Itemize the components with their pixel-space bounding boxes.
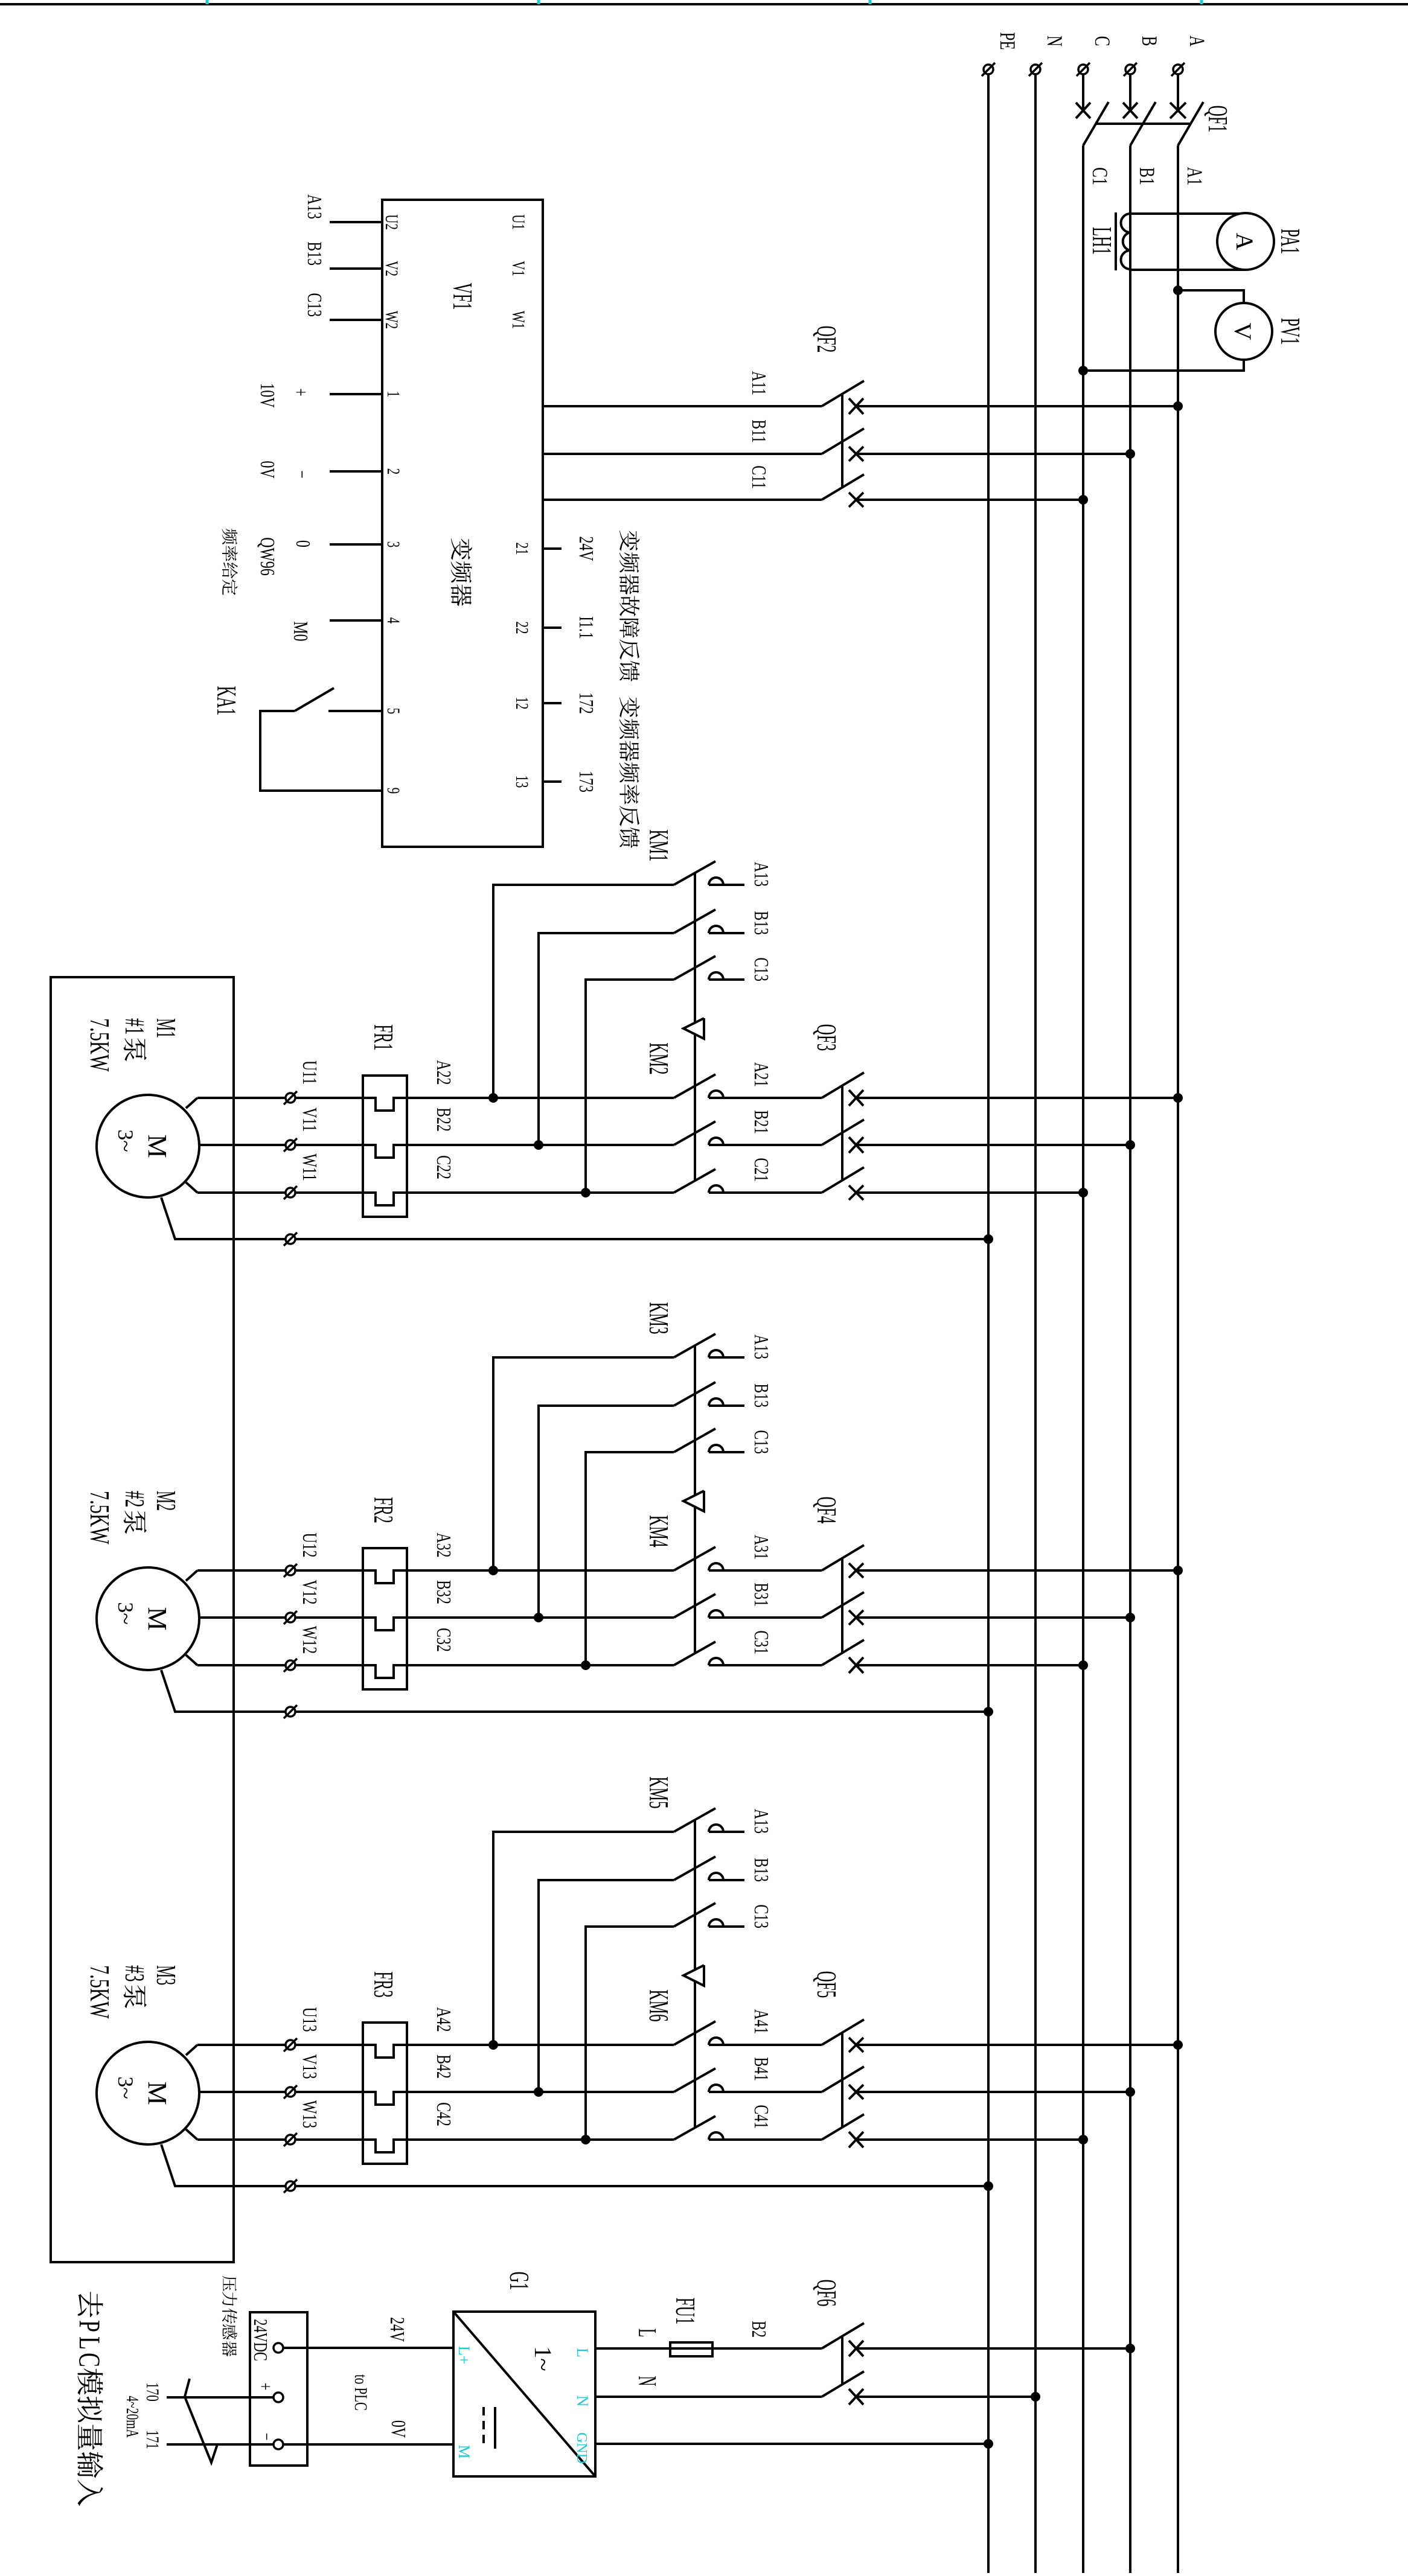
svg-text:W11: W11 — [298, 1153, 321, 1181]
wire bus A1 segment to QF1 — [1177, 75, 1179, 110]
breaker pole contact — [849, 2038, 863, 2052]
pin 2 stub — [330, 470, 382, 473]
svg-text:5: 5 — [383, 708, 404, 714]
svg-text:24V: 24V — [575, 537, 597, 561]
pressure sensor terminal box — [250, 2312, 307, 2466]
wire contactor output — [493, 1357, 674, 1570]
pin 12 stub — [543, 702, 562, 704]
wire to thermal relay — [295, 1145, 674, 1158]
wire B13 stub — [709, 1879, 744, 1881]
wire — [856, 1616, 1130, 1619]
svg-text:C42: C42 — [432, 2102, 455, 2126]
wire to thermal relay — [295, 2092, 674, 2105]
breaker pole contact — [849, 2085, 863, 2099]
wire — [856, 1097, 1178, 1099]
svg-text:A13: A13 — [750, 1809, 772, 1834]
svg-text:VF1: VF1 — [447, 283, 477, 310]
wire — [856, 2044, 1178, 2046]
svg-text:N: N — [633, 2376, 661, 2386]
svg-text:A42: A42 — [432, 2007, 455, 2032]
wire motor lead upper — [199, 1144, 286, 1146]
interlock triangle — [683, 1491, 704, 1511]
junction — [534, 2087, 543, 2097]
svg-text:3~: 3~ — [114, 2076, 138, 2099]
label 变频器频率反馈 — [619, 697, 639, 718]
svg-text:B41: B41 — [750, 2057, 772, 2081]
junction — [581, 1660, 590, 1670]
svg-text:KM5: KM5 — [644, 1776, 673, 1808]
label 频率给定 — [222, 529, 238, 544]
drawing frame edge line — [0, 3, 1408, 5]
connector U13 — [286, 2040, 295, 2050]
svg-text:12: 12 — [512, 697, 533, 710]
contactor pole contact — [709, 1825, 723, 1832]
svg-text:G1: G1 — [504, 2272, 534, 2291]
svg-text:+: + — [255, 2383, 277, 2391]
connector W13 — [286, 2135, 295, 2144]
svg-text:KM4: KM4 — [644, 1515, 673, 1547]
wire to thermal relay — [295, 2140, 674, 2152]
svg-text:171: 171 — [142, 2430, 163, 2449]
PE connector — [286, 1234, 295, 1244]
PE connector — [286, 1707, 295, 1717]
junction — [488, 2040, 498, 2050]
wire GND — [595, 2443, 988, 2445]
svg-text:A31: A31 — [750, 1535, 772, 1560]
svg-text:KA1: KA1 — [211, 686, 241, 716]
svg-text:KM3: KM3 — [644, 1302, 673, 1334]
wire C13 stub — [709, 1925, 744, 1928]
pin 3 stub — [330, 543, 382, 546]
breaker pole contact — [849, 398, 863, 414]
svg-text:13: 13 — [512, 776, 533, 788]
motor lead A — [186, 1570, 197, 1581]
svg-text:C31: C31 — [750, 1630, 772, 1654]
wire bus B1 segment to QF1 — [1129, 75, 1131, 110]
svg-text:M1: M1 — [151, 1018, 182, 1038]
pin 22 stub — [543, 626, 562, 629]
svg-text:4: 4 — [383, 617, 404, 624]
wire contactor output — [539, 1406, 674, 1618]
wire — [856, 1664, 1083, 1666]
wire contactor output — [539, 933, 674, 1145]
wire to thermal relay — [295, 1665, 674, 1678]
svg-text:FR3: FR3 — [368, 1971, 398, 1997]
connector V11 — [286, 1140, 295, 1150]
svg-text:QW96: QW96 — [256, 537, 278, 575]
frame zone tick cyan 3 — [537, 0, 540, 4]
wire — [856, 453, 1130, 455]
svg-text:KM6: KM6 — [644, 1989, 673, 2021]
svg-text:V13: V13 — [298, 2055, 321, 2079]
contactor pole contact — [709, 1658, 723, 1665]
pin 9 loop wire — [260, 711, 382, 791]
svg-text:173: 173 — [575, 771, 597, 792]
junction — [488, 1566, 498, 1575]
motor lead C — [186, 2129, 197, 2140]
contactor pole contact — [709, 972, 723, 980]
svg-text:QF1: QF1 — [1203, 106, 1232, 133]
svg-text:4~20mA: 4~20mA — [123, 2396, 141, 2438]
wire 24V G1 to sensor — [283, 2347, 453, 2349]
G1 DC symbol — [494, 2407, 496, 2449]
svg-text:21: 21 — [512, 543, 533, 555]
svg-text:A13: A13 — [303, 194, 325, 219]
contactor pole contact — [709, 1919, 723, 1927]
frame zone tick cyan 1 — [1200, 0, 1203, 4]
svg-text:U13: U13 — [298, 2007, 321, 2032]
contactor pole contact — [709, 2132, 723, 2140]
svg-text:KM2: KM2 — [644, 1042, 673, 1074]
svg-text:C: C — [73, 2353, 106, 2367]
wire A11 — [543, 405, 822, 407]
pin 13 stub — [543, 780, 562, 783]
svg-text:QF6: QF6 — [811, 2280, 841, 2307]
junction on bus B for QF6 — [1125, 2344, 1135, 2353]
junction on bus N for QF6 — [1031, 2392, 1040, 2402]
svg-text:B11: B11 — [747, 419, 770, 443]
motor lead A — [186, 1098, 197, 1108]
wire contactor output — [586, 1927, 674, 2140]
wire B2 upper — [856, 2347, 1130, 2350]
svg-text:B13: B13 — [303, 241, 325, 266]
wire — [856, 405, 1178, 407]
svg-text:#2: #2 — [119, 1491, 150, 1508]
svg-text:1: 1 — [383, 391, 404, 397]
junction — [534, 1140, 543, 1150]
svg-text:B13: B13 — [750, 911, 772, 935]
pin 21 stub — [543, 547, 562, 550]
junction on bus C for PV1 — [1078, 366, 1088, 375]
breaker tie bar — [841, 394, 843, 488]
wire A41 — [709, 2044, 822, 2046]
contactor pole contact — [709, 1091, 723, 1098]
breaker pole contact — [849, 1137, 863, 1153]
svg-text:U11: U11 — [298, 1060, 321, 1085]
wire C11 — [543, 499, 822, 501]
svg-text:B21: B21 — [750, 1110, 772, 1134]
svg-text:C22: C22 — [432, 1155, 455, 1179]
wire C21 — [709, 1191, 822, 1194]
wire — [856, 1569, 1178, 1572]
svg-text:3~: 3~ — [114, 1129, 138, 1152]
frame zone tick cyan 2 — [869, 0, 872, 4]
contactor pole contact — [709, 2038, 723, 2045]
svg-text:170: 170 — [142, 2382, 163, 2401]
svg-text:L: L — [633, 2329, 661, 2337]
wire to thermal relay — [295, 1618, 674, 1630]
wire contactor output — [586, 980, 674, 1193]
junction — [534, 1613, 543, 1622]
svg-text:3~: 3~ — [114, 1602, 138, 1624]
wire A13 stub — [709, 884, 744, 886]
svg-text:C13: C13 — [750, 957, 772, 981]
svg-text:QF2: QF2 — [811, 326, 841, 353]
wire A13 stub — [330, 221, 382, 223]
motor PE lead — [161, 1670, 286, 1712]
destination arrow — [185, 2379, 217, 2463]
mechanical interlock tie bar — [694, 1981, 696, 2128]
wire to thermal relay — [295, 1570, 674, 1583]
junction on bus B — [1125, 2087, 1135, 2097]
thermal relay FR1 box — [363, 1076, 407, 1217]
motor M1 — [97, 1095, 199, 1197]
breaker pole contact — [849, 447, 863, 461]
wire C13 stub — [709, 1451, 744, 1453]
junction on bus A — [1173, 2040, 1183, 2050]
svg-text:A11: A11 — [747, 371, 770, 395]
svg-text:QF3: QF3 — [811, 1024, 841, 1051]
wire motor PE — [295, 2185, 988, 2187]
ammeter PA1 — [1217, 213, 1274, 270]
svg-text:C41: C41 — [750, 2105, 772, 2129]
junction on bus PE — [984, 1707, 993, 1717]
wire motor lead upper — [197, 2044, 286, 2046]
wire bus C1 segment to QF1 — [1082, 75, 1084, 110]
wire CT to PA1 right — [1130, 269, 1246, 271]
svg-text:to PLC: to PLC — [351, 2374, 371, 2411]
svg-text:M: M — [142, 1607, 172, 1630]
breaker pole contact — [849, 493, 863, 507]
pin 1 stub — [330, 393, 382, 395]
junction on bus C — [1078, 1188, 1088, 1197]
breaker pole contact — [849, 1090, 863, 1106]
svg-text:M3: M3 — [151, 1965, 182, 1985]
wire — [856, 1191, 1083, 1194]
wire bus N — [1034, 75, 1037, 2573]
svg-text:C13: C13 — [303, 293, 325, 317]
junction on bus B — [1125, 449, 1135, 459]
junction — [581, 1188, 590, 1197]
motor lead C — [186, 1182, 197, 1193]
wire C13 stub — [709, 978, 744, 981]
svg-text:U12: U12 — [298, 1533, 321, 1558]
svg-text:N: N — [574, 2396, 591, 2407]
connector U12 — [286, 1566, 295, 1575]
svg-text:N: N — [1043, 36, 1067, 46]
junction on bus PE for G1 GND — [984, 2439, 993, 2449]
breaker tie bar — [841, 1558, 843, 1654]
label 去PLC模拟量输入 — [78, 2292, 103, 2317]
svg-text:7.5KW: 7.5KW — [84, 1491, 115, 1545]
connector W11 — [286, 1188, 295, 1197]
junction on bus A for PV1 — [1173, 285, 1183, 295]
svg-text:C11: C11 — [747, 465, 770, 489]
wire motor lead upper — [197, 2138, 286, 2141]
mechanical interlock tie bar — [694, 1506, 696, 1654]
wire — [856, 2138, 1083, 2141]
terminal N — [1031, 65, 1040, 74]
breaker pole contact — [849, 1657, 863, 1673]
svg-text:V2: V2 — [382, 261, 402, 276]
breaker QF6 tie bar — [841, 2336, 843, 2385]
wire B21 — [709, 1144, 822, 1146]
svg-text:B: B — [1138, 36, 1162, 46]
svg-text:L+: L+ — [455, 2346, 473, 2365]
junction on bus B — [1125, 1613, 1135, 1622]
svg-text:0V: 0V — [387, 2420, 409, 2438]
wire motor PE — [295, 1710, 988, 1713]
wire C41 — [709, 2138, 822, 2141]
sensor terminal 24VDC — [274, 2343, 283, 2353]
svg-text:QF5: QF5 — [811, 1971, 841, 1998]
breaker pole contact — [849, 1563, 863, 1578]
svg-text:10V: 10V — [256, 383, 278, 408]
frame zone tick cyan 4 — [206, 0, 209, 4]
svg-text:B22: B22 — [432, 1108, 455, 1132]
wire N upper — [856, 2396, 1035, 2398]
wire motor lead upper — [199, 1616, 286, 1619]
power supply G1 box — [453, 2312, 595, 2476]
wire bus B1 — [1129, 145, 1131, 2573]
svg-text:A13: A13 — [750, 1334, 772, 1359]
wire B2 to fuse — [712, 2347, 822, 2350]
wire contactor output — [586, 1452, 674, 1665]
motor M2 — [97, 1567, 199, 1670]
svg-text:PA1: PA1 — [1275, 229, 1305, 254]
svg-text:B13: B13 — [750, 1383, 772, 1408]
motor lead C — [186, 1655, 197, 1665]
svg-text:22: 22 — [512, 622, 533, 634]
svg-text:L: L — [574, 2348, 591, 2358]
junction — [581, 2135, 590, 2144]
breaker tie bar — [841, 2032, 843, 2128]
wire A13 stub — [709, 1356, 744, 1359]
connector U11 — [286, 1093, 295, 1103]
svg-text:A1: A1 — [1183, 167, 1208, 186]
wire L to G1 — [595, 2347, 670, 2350]
svg-text:W13: W13 — [298, 2100, 321, 2128]
contactor pole contact — [709, 878, 723, 885]
breaker QF1 — [1076, 102, 1203, 145]
contactor pole contact — [709, 1873, 723, 1880]
mechanical interlock tie bar — [694, 1035, 696, 1181]
terminal B — [1125, 65, 1135, 74]
svg-text:A: A — [1185, 36, 1210, 47]
wire CT to PA1 left — [1130, 212, 1246, 215]
contactor pole contact — [709, 1610, 723, 1618]
wire — [856, 499, 1083, 501]
PE connector — [286, 2181, 295, 2191]
svg-text:P: P — [73, 2320, 106, 2332]
svg-text:B31: B31 — [750, 1583, 772, 1607]
svg-text:3: 3 — [383, 541, 404, 547]
svg-text:−: − — [290, 470, 313, 478]
contactor pole contact — [709, 2085, 723, 2092]
wire contactor output — [539, 1880, 674, 2092]
contactor pole contact — [709, 1138, 723, 1145]
wire B41 — [709, 2091, 822, 2093]
svg-text:W12: W12 — [298, 1626, 321, 1654]
wire B11 — [543, 453, 822, 455]
junction on bus A — [1173, 1093, 1183, 1103]
svg-text:A13: A13 — [750, 862, 772, 887]
wire contactor output — [493, 885, 674, 1098]
svg-text:FR2: FR2 — [368, 1497, 398, 1523]
svg-text:I1.1: I1.1 — [575, 616, 597, 639]
svg-text:24VDC: 24VDC — [250, 2319, 272, 2361]
motor PE lead — [161, 2144, 286, 2186]
fuse FU1 — [670, 2342, 712, 2356]
svg-text:V12: V12 — [298, 1580, 321, 1605]
wire — [856, 1144, 1130, 1146]
connector V13 — [286, 2087, 295, 2097]
svg-text:A: A — [1231, 233, 1258, 250]
wire motor lead upper — [199, 2091, 286, 2093]
junction on bus C — [1078, 1660, 1088, 1670]
current transformer LH1 — [1116, 212, 1130, 270]
svg-text:B1: B1 — [1135, 167, 1160, 185]
wire A21 — [709, 1097, 822, 1099]
breaker QF6 pole N — [849, 2389, 863, 2405]
pin 5 stub — [328, 710, 382, 712]
wire to thermal relay — [295, 1098, 674, 1111]
label 变频器故障反馈 — [619, 531, 639, 551]
connector V12 — [286, 1613, 295, 1622]
connector W12 — [286, 1660, 295, 1670]
wire C31 — [709, 1664, 822, 1666]
wire B13 stub — [709, 932, 744, 934]
breaker pole contact — [849, 1185, 863, 1200]
relay contact KA1 — [295, 688, 334, 711]
junction on bus PE — [984, 2181, 993, 2191]
svg-text:LH1: LH1 — [1087, 227, 1116, 255]
junction on bus A — [1173, 401, 1183, 411]
wire A31 — [709, 1569, 822, 1572]
wire C13 stub — [330, 319, 382, 321]
wire bus PE — [987, 75, 990, 2573]
svg-text:KM1: KM1 — [644, 829, 673, 861]
contactor pole contact — [709, 1398, 723, 1406]
svg-text:B2: B2 — [747, 2321, 770, 2338]
svg-text:FU1: FU1 — [670, 2298, 700, 2325]
svg-text:1~: 1~ — [530, 2346, 557, 2371]
wire N to G1 — [595, 2396, 822, 2398]
interlock triangle — [683, 1018, 704, 1039]
contactor pole contact — [709, 1350, 723, 1357]
svg-text:FR1: FR1 — [368, 1024, 398, 1050]
svg-text:U1: U1 — [508, 214, 529, 230]
svg-text:W1: W1 — [508, 311, 529, 329]
svg-text:W2: W2 — [382, 311, 402, 329]
junction on bus A — [1173, 1566, 1183, 1575]
svg-text:M: M — [142, 1134, 172, 1158]
thermal relay FR2 box — [363, 1548, 407, 1689]
wire PV1 right — [1083, 360, 1244, 371]
breaker tie bar — [841, 1085, 843, 1181]
svg-text:0: 0 — [292, 540, 314, 547]
wire motor PE — [295, 1238, 988, 1240]
wire to thermal relay — [295, 1193, 674, 1205]
junction — [488, 1093, 498, 1103]
contactor pole contact — [709, 926, 723, 933]
svg-text:V11: V11 — [298, 1108, 321, 1132]
svg-text:C: C — [1090, 36, 1115, 46]
wire A13 stub — [709, 1831, 744, 1833]
mechanical interlock tie bar — [694, 1820, 696, 1970]
svg-text:L: L — [73, 2336, 106, 2350]
svg-text:B13: B13 — [750, 1858, 772, 1882]
wire B31 — [709, 1616, 822, 1619]
label 变频器 — [451, 538, 472, 560]
svg-text:V1: V1 — [508, 261, 529, 276]
contactor pole contact — [709, 1445, 723, 1452]
wire to thermal relay — [295, 2045, 674, 2058]
svg-text:M: M — [455, 2444, 473, 2458]
pump group enclosure box — [51, 977, 234, 2262]
breaker pole contact — [849, 2132, 863, 2147]
svg-text:#1: #1 — [119, 1018, 150, 1035]
